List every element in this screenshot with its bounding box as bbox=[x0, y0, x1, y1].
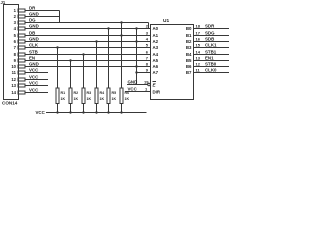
wire R2 bottom bbox=[70, 104, 72, 113]
svg-text:A7: A7 bbox=[153, 70, 159, 75]
svg-text:VCC: VCC bbox=[29, 75, 39, 80]
svg-text:17: 17 bbox=[196, 31, 201, 36]
wire A7 stub from GND bus bbox=[137, 72, 151, 74]
wire pullup drop col 96.5 bbox=[96, 42, 98, 89]
junction dot pullup row6 bbox=[95, 40, 97, 42]
svg-text:DG: DG bbox=[29, 18, 36, 23]
wire B5 out bbox=[194, 60, 230, 62]
wire VCC pin13 bbox=[25, 85, 49, 87]
junction dot GND bus A7 bbox=[135, 71, 137, 73]
junction dot EN pullup bbox=[69, 59, 71, 61]
pin 11 stub bbox=[18, 71, 25, 74]
pin 12 stub bbox=[18, 78, 25, 81]
svg-text:GND: GND bbox=[29, 24, 39, 29]
wire GND stub to pin 19 bbox=[127, 84, 148, 86]
pin 3 stub bbox=[18, 21, 25, 24]
junction dot DG pullup bbox=[120, 21, 122, 23]
svg-text:CLK: CLK bbox=[29, 43, 39, 48]
svg-text:B7: B7 bbox=[186, 70, 192, 75]
wire R6 bottom bbox=[121, 104, 123, 113]
pin 10 stub bbox=[18, 65, 25, 68]
chip pin names B0-B7 bbox=[186, 26, 192, 75]
chip U1 body bbox=[151, 25, 194, 100]
pin 7 stub bbox=[18, 46, 25, 49]
pin 14 stub bbox=[18, 91, 25, 94]
svg-text:R3: R3 bbox=[87, 91, 92, 95]
wire DR corner down bbox=[59, 11, 61, 23]
wire R1 bottom bbox=[57, 104, 59, 113]
svg-text:EN1: EN1 bbox=[205, 56, 214, 61]
svg-text:GND: GND bbox=[29, 37, 39, 42]
resistor R1 bbox=[56, 88, 59, 104]
junction dot R1 rail bbox=[56, 111, 58, 113]
svg-text:B2: B2 bbox=[186, 39, 192, 44]
junction dot DB pullup bbox=[120, 34, 122, 36]
wire R5 bottom bbox=[108, 104, 110, 113]
svg-text:CON14: CON14 bbox=[2, 101, 18, 106]
svg-text:SDB: SDB bbox=[205, 37, 214, 42]
svg-text:11: 11 bbox=[12, 70, 17, 75]
wire DG pin3 row bbox=[25, 22, 149, 24]
wire DR pin1 bbox=[25, 10, 60, 12]
svg-text:EN: EN bbox=[29, 56, 35, 61]
wire B7 out bbox=[194, 72, 230, 74]
pin 6 stub bbox=[18, 40, 25, 43]
junction dot CLK pullup bbox=[56, 46, 58, 48]
wire GND pin6 row to chip A2 bbox=[25, 41, 151, 43]
wire GND pin2 bbox=[25, 16, 60, 18]
wire VCC rail bbox=[46, 112, 147, 114]
svg-text:DIR: DIR bbox=[153, 90, 161, 95]
connector J1 body bbox=[4, 5, 19, 100]
svg-text:GND: GND bbox=[128, 80, 138, 85]
svg-text:13: 13 bbox=[196, 56, 201, 61]
svg-text:SDR: SDR bbox=[205, 24, 215, 29]
svg-text:A4: A4 bbox=[153, 52, 159, 57]
svg-text:15: 15 bbox=[196, 43, 201, 48]
resistor R6 bbox=[120, 88, 123, 104]
wire step down into A0 bbox=[148, 23, 150, 29]
chip pin names A0-A7 bbox=[153, 26, 159, 75]
wire B6 out bbox=[194, 66, 230, 68]
pin 8 stub bbox=[18, 53, 25, 56]
svg-text:A0: A0 bbox=[153, 26, 159, 31]
svg-text:1K: 1K bbox=[125, 97, 130, 101]
wire VCC stub to pin 1 bbox=[125, 91, 151, 93]
resistor R2 bbox=[69, 88, 72, 104]
svg-text:U1: U1 bbox=[163, 18, 169, 24]
svg-text:A1: A1 bbox=[153, 33, 159, 38]
svg-text:VCC: VCC bbox=[29, 88, 39, 93]
svg-text:CLK1: CLK1 bbox=[205, 43, 217, 48]
svg-text:1K: 1K bbox=[112, 97, 117, 101]
wire B0 out bbox=[194, 28, 230, 30]
svg-text:12: 12 bbox=[11, 77, 16, 82]
svg-text:A3: A3 bbox=[153, 45, 159, 50]
svg-text:16: 16 bbox=[196, 37, 201, 42]
wire R4 bottom bbox=[96, 104, 98, 113]
svg-text:18: 18 bbox=[196, 24, 201, 29]
wire VCC pin11 bbox=[25, 72, 49, 74]
wire DB pin5 row to chip A1 bbox=[25, 35, 151, 37]
junction dot GND bus top bbox=[135, 27, 137, 29]
wire B1 out bbox=[194, 35, 230, 37]
junction dot pullup row4 bbox=[107, 27, 109, 29]
pin 5 stub bbox=[18, 34, 25, 37]
junction dot R5 rail bbox=[107, 111, 109, 113]
svg-text:CLK0: CLK0 bbox=[205, 68, 217, 73]
svg-text:R4: R4 bbox=[100, 91, 105, 95]
svg-text:VCC: VCC bbox=[128, 87, 138, 92]
wire VCC pin14 bbox=[25, 92, 49, 94]
wire GND pin4 row to chip A0 bbox=[25, 28, 151, 30]
junction dot STB pullup bbox=[82, 53, 84, 55]
svg-text:STB0: STB0 bbox=[205, 62, 217, 67]
resistor R5 bbox=[107, 88, 110, 104]
chip A-side pin numbers 2-9 bbox=[146, 24, 149, 73]
svg-text:R2: R2 bbox=[74, 91, 79, 95]
wire pullup drop col 57.5 bbox=[57, 48, 59, 89]
svg-text:B1: B1 bbox=[186, 33, 192, 38]
svg-text:VCC: VCC bbox=[29, 81, 39, 86]
svg-text:A5: A5 bbox=[153, 58, 159, 63]
wire B2 out bbox=[194, 41, 230, 43]
svg-text:SDG: SDG bbox=[205, 31, 215, 36]
pin 13 stub bbox=[18, 84, 25, 87]
svg-text:1K: 1K bbox=[87, 97, 92, 101]
wire pullup drop col 83.5 bbox=[83, 55, 85, 89]
junction dot R3 rail bbox=[82, 111, 84, 113]
svg-text:A2: A2 bbox=[153, 39, 159, 44]
wire B3 out bbox=[194, 47, 230, 49]
resistor R3 bbox=[82, 88, 85, 104]
svg-text:1K: 1K bbox=[100, 97, 105, 101]
svg-text:R5: R5 bbox=[112, 91, 117, 95]
svg-text:B6: B6 bbox=[186, 64, 192, 69]
svg-text:1K: 1K bbox=[74, 97, 79, 101]
svg-text:B3: B3 bbox=[186, 45, 192, 50]
pin 1 stub bbox=[18, 9, 25, 12]
resistor R4 bbox=[95, 88, 98, 104]
svg-text:VCC: VCC bbox=[36, 110, 46, 115]
junction dot GND bus row6 bbox=[135, 40, 137, 42]
svg-text:B4: B4 bbox=[186, 52, 192, 57]
wire B4 out bbox=[194, 54, 230, 56]
junction dot R6 rail bbox=[120, 111, 122, 113]
wire GND pin10 row to chip A6 bbox=[25, 66, 151, 68]
junction dot R4 rail bbox=[95, 111, 97, 113]
svg-text:DB: DB bbox=[29, 31, 35, 36]
wire CLK pin7 row to chip A3 bbox=[25, 47, 151, 49]
svg-text:1K: 1K bbox=[61, 97, 66, 101]
svg-text:14: 14 bbox=[11, 90, 16, 95]
svg-text:STB: STB bbox=[29, 50, 38, 55]
svg-text:GND: GND bbox=[29, 62, 39, 67]
svg-text:VCC: VCC bbox=[29, 68, 39, 73]
pin 4 stub bbox=[18, 27, 25, 30]
wire STB pin8 row to chip A4 bbox=[25, 54, 151, 56]
svg-text:10: 10 bbox=[11, 64, 16, 69]
svg-text:B0: B0 bbox=[186, 26, 192, 31]
svg-text:12: 12 bbox=[196, 62, 201, 67]
svg-text:R1: R1 bbox=[61, 91, 66, 95]
svg-text:GND: GND bbox=[29, 12, 39, 17]
OE bubble bbox=[148, 83, 151, 86]
svg-text:A6: A6 bbox=[153, 64, 159, 69]
pin 9 stub bbox=[18, 59, 25, 62]
connector pin numbers 1-14 bbox=[11, 8, 16, 95]
wire pullup drop col 108.5 bbox=[108, 29, 110, 89]
svg-text:B5: B5 bbox=[186, 58, 192, 63]
junction dot GND bus row10 bbox=[135, 65, 137, 67]
wire pullup drop col 121.5 bbox=[121, 23, 123, 89]
svg-text:13: 13 bbox=[11, 83, 16, 88]
wire EN pin9 row to chip A5 bbox=[25, 60, 151, 62]
svg-text:STB1: STB1 bbox=[205, 50, 217, 55]
wire R3 bottom bbox=[83, 104, 85, 113]
wire VCC pin12 bbox=[25, 79, 49, 81]
svg-text:DR: DR bbox=[29, 6, 36, 11]
junction dot R2 rail bbox=[69, 111, 71, 113]
wire pullup drop col 70.5 bbox=[70, 61, 72, 89]
pin 2 stub bbox=[18, 15, 25, 18]
wire GND bus vertical bbox=[136, 29, 138, 85]
svg-text:14: 14 bbox=[196, 50, 201, 55]
